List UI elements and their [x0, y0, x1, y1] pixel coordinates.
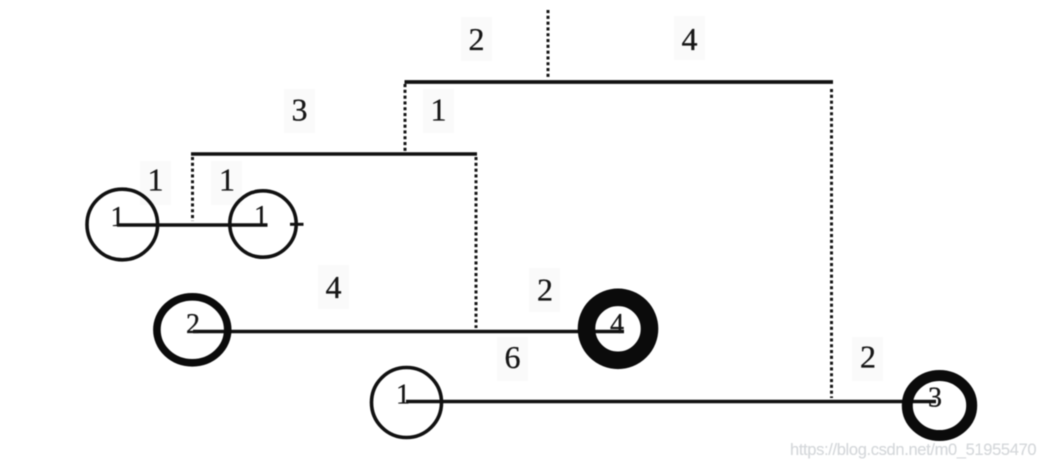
dotted connector to pair 1-3 [830, 89, 833, 398]
label 2 (edge n5-n6 right) [852, 337, 883, 381]
svg-text:3: 3 [292, 92, 308, 128]
node n4 circle (weight 4, extra bold) [587, 297, 650, 360]
svg-text:1: 1 [431, 92, 447, 128]
node n2 circle (weight 1) [230, 191, 296, 257]
svg-text:1: 1 [111, 202, 125, 233]
svg-text:1: 1 [219, 162, 235, 198]
wire top level (edge 2-4 bar) [405, 80, 834, 84]
svg-text:2: 2 [469, 21, 485, 57]
node n3 circle (weight 2, bold) [157, 297, 228, 363]
dotted connector to pair 2-4 [475, 157, 478, 328]
svg-text:https://blog.csdn.net/m0_51955: https://blog.csdn.net/m0_51955470 [790, 441, 1036, 459]
label 1 (above node n1) [140, 161, 171, 205]
wire edge n1-n2 [117, 223, 268, 226]
svg-text:1: 1 [254, 201, 268, 232]
wire edge n5-n6 [406, 400, 936, 403]
dotted connector top (root stem) [547, 10, 550, 79]
label 1 (level 2 right) [423, 89, 454, 133]
label 6 (edge n5-n6 left) [497, 337, 528, 381]
svg-text:3: 3 [928, 383, 942, 414]
wire tick right of n2 [290, 223, 304, 226]
svg-text:1: 1 [396, 380, 410, 411]
wire level 2 bar [191, 152, 477, 155]
label 2 (top left) [461, 17, 492, 61]
svg-text:2: 2 [537, 272, 553, 308]
svg-text:4: 4 [610, 309, 624, 340]
dotted connector to pair 1-1 [191, 157, 194, 221]
label 2 (edge n3-n4 right) [529, 268, 560, 312]
svg-text:4: 4 [326, 269, 342, 305]
label 3 (level 2 left) [284, 89, 315, 133]
svg-text:6: 6 [505, 339, 521, 375]
node n6 circle (weight 3, bold) [907, 376, 971, 436]
node n1 circle (weight 1) [87, 189, 158, 260]
svg-text:2: 2 [860, 339, 876, 375]
label 4 (top right) [674, 16, 705, 60]
wire edge n3-n4 [193, 330, 624, 333]
svg-text:4: 4 [682, 21, 698, 57]
node n5 circle (weight 1) [372, 368, 442, 438]
svg-text:2: 2 [186, 309, 200, 340]
svg-text:1: 1 [148, 162, 164, 198]
label 1 (above node n2) [211, 161, 242, 205]
label 4 (edge n3-n4 left) [318, 265, 349, 309]
dotted connector left branch [404, 84, 407, 152]
